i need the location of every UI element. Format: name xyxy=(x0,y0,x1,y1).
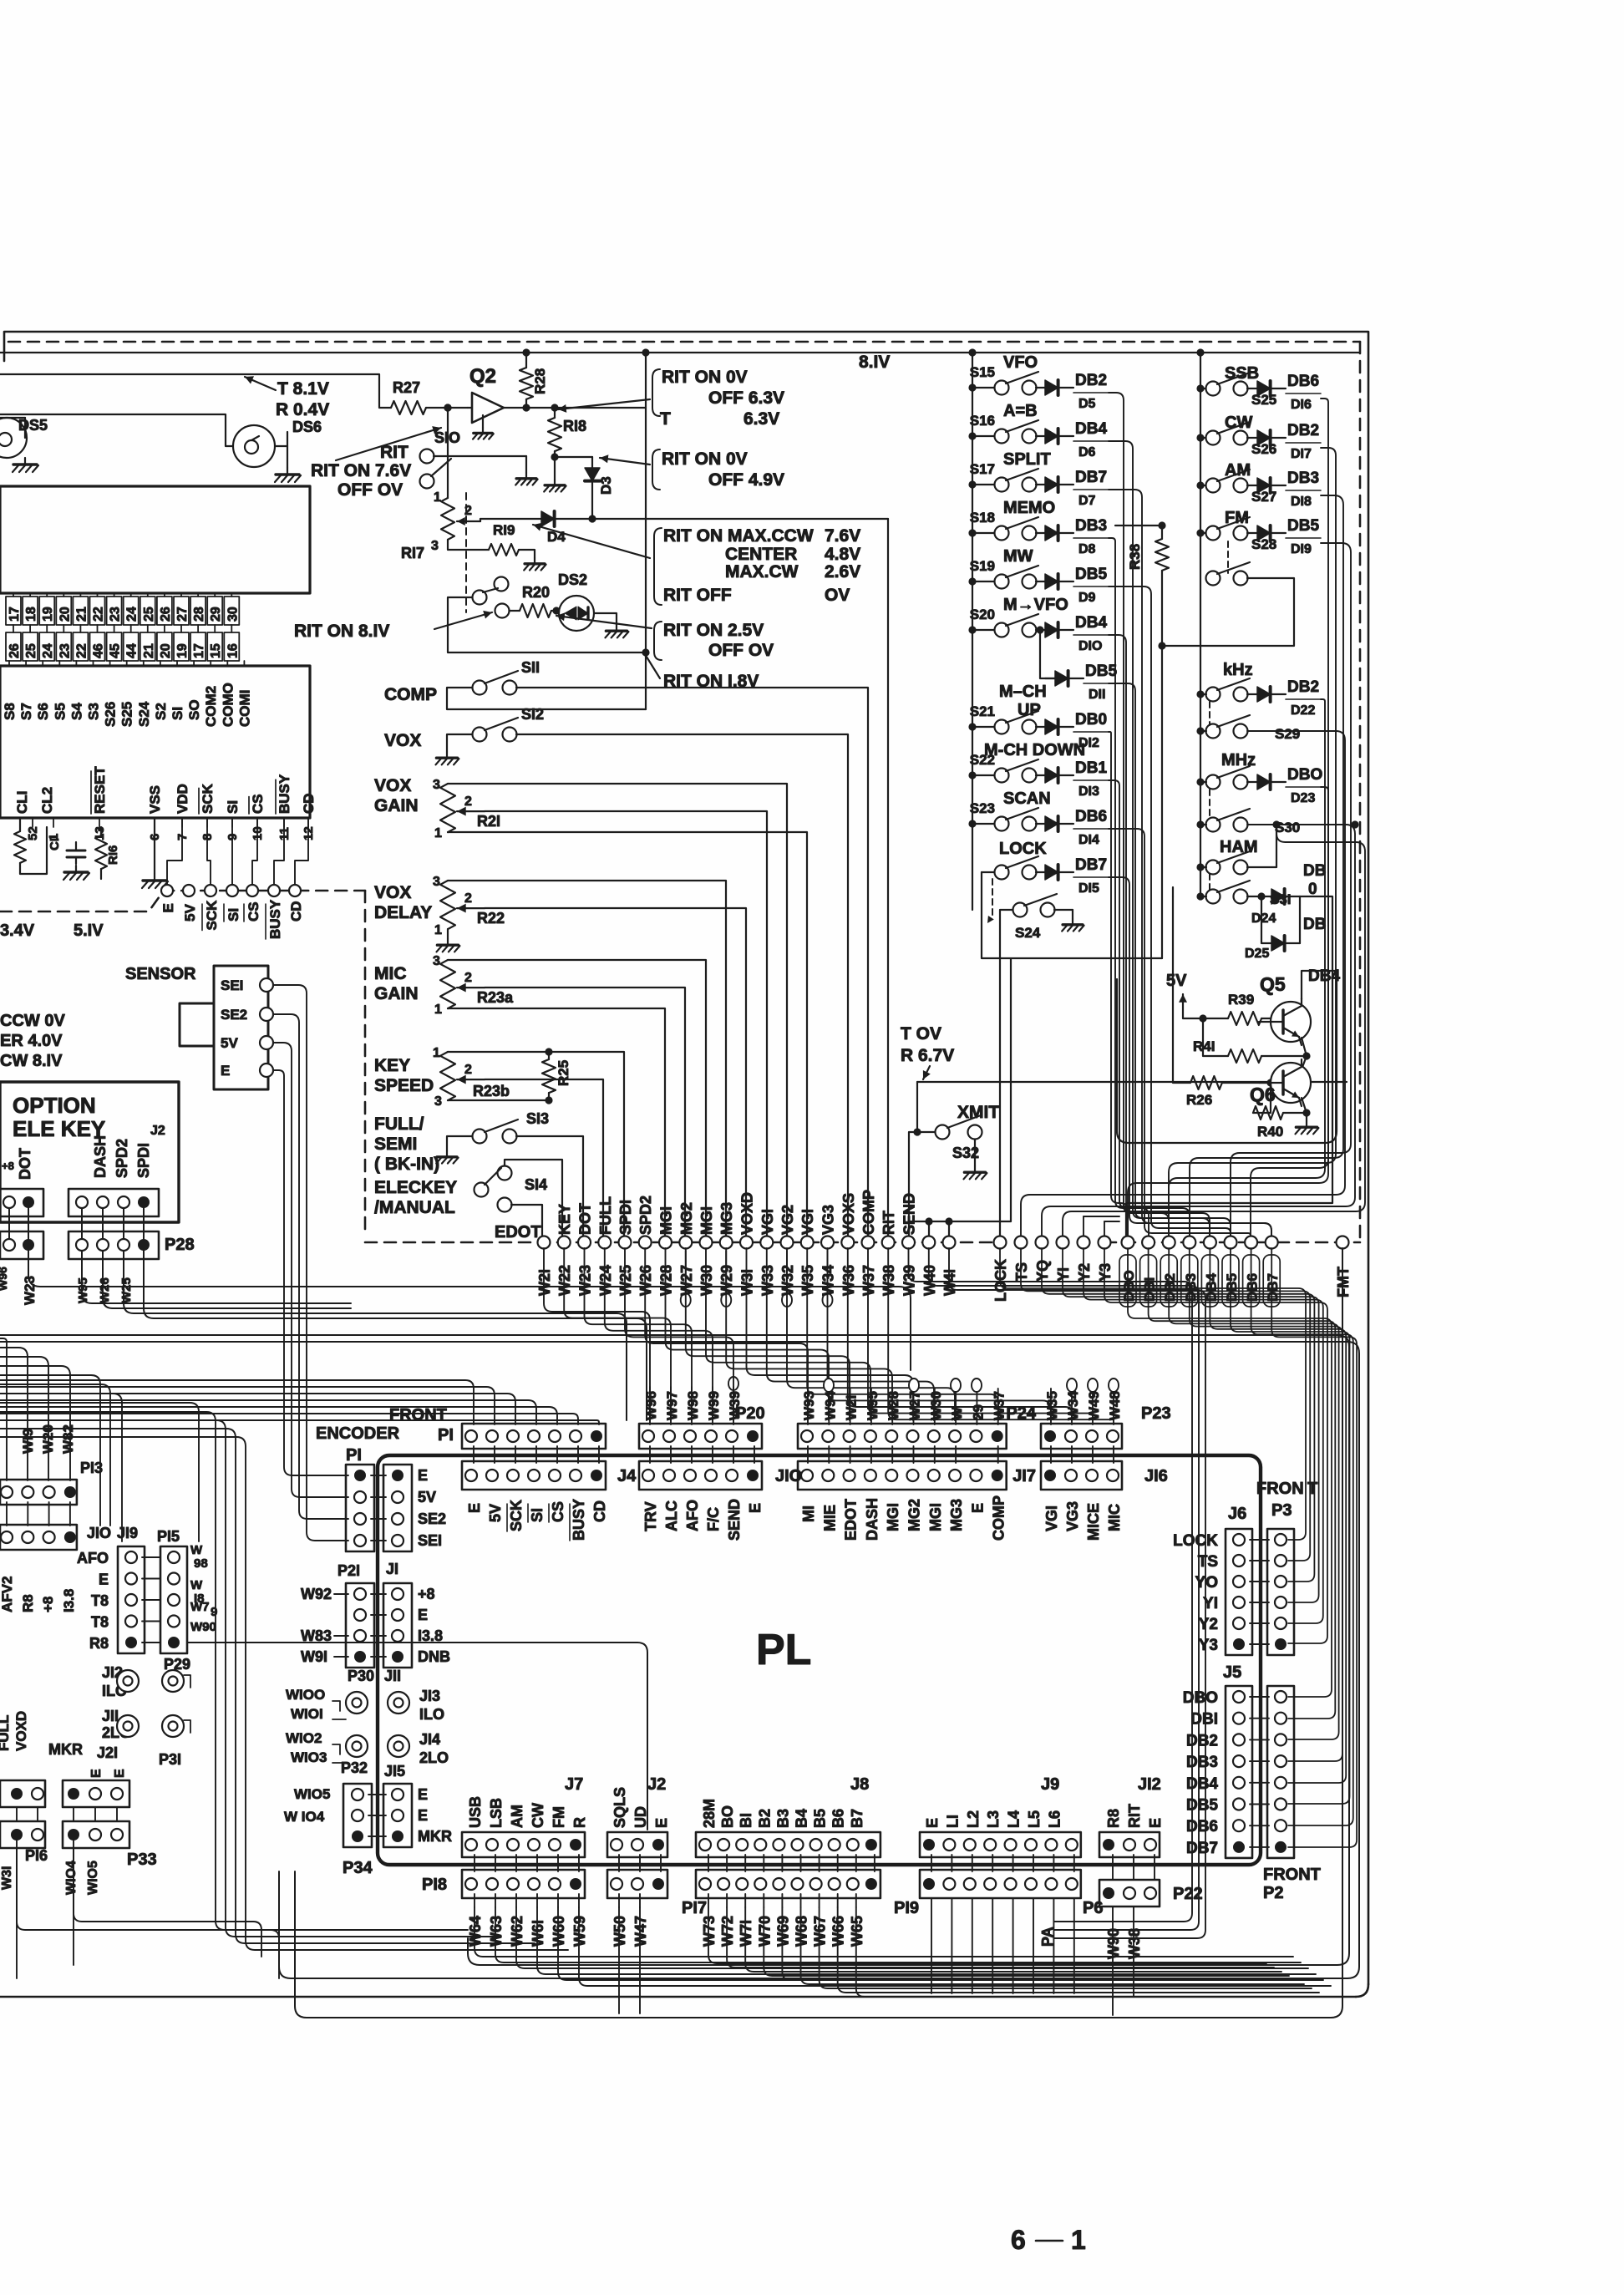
annotation RIT ON MAX.CCW block xyxy=(654,528,662,605)
wire Y1 Y2 Y3 feeds xyxy=(1063,825,1365,1238)
svg-text:W96: W96 xyxy=(643,1391,659,1420)
svg-text:E: E xyxy=(653,1818,670,1828)
svg-text:MGI: MGI xyxy=(698,1206,715,1235)
svg-text:W62: W62 xyxy=(509,1916,525,1947)
board outline solid border xyxy=(4,332,1368,1984)
svg-text:W7: W7 xyxy=(190,1600,210,1614)
svg-text:DB0: DB0 xyxy=(1075,711,1107,729)
svg-text:19: 19 xyxy=(41,607,55,622)
svg-text:S20: S20 xyxy=(970,607,995,622)
switch MHz xyxy=(1206,775,1221,790)
svg-text:J8: J8 xyxy=(850,1775,869,1794)
svg-text:DB3: DB3 xyxy=(1186,1754,1218,1771)
wire Q6 emitter ground xyxy=(1302,1098,1307,1113)
diode D5 xyxy=(1036,387,1045,388)
diode D15 xyxy=(1036,871,1045,873)
capacitor C1 xyxy=(67,850,85,852)
svg-text:SPEED: SPEED xyxy=(374,1076,434,1095)
svg-text:J6: J6 xyxy=(1228,1505,1246,1523)
svg-text:MKR: MKR xyxy=(418,1828,452,1845)
svg-text:SO: SO xyxy=(186,699,202,720)
svg-text:3: 3 xyxy=(433,778,440,792)
connector J9 xyxy=(920,1832,1081,1857)
wire S12 to VOXS bus xyxy=(516,734,848,1238)
svg-text:3.4V: 3.4V xyxy=(0,922,35,940)
wire to RIT pot xyxy=(447,408,449,498)
ground S13 xyxy=(447,1136,472,1151)
svg-text:EDOT: EDOT xyxy=(495,1223,541,1241)
svg-text:COMI: COMI xyxy=(236,690,252,727)
stubs P21-J11 xyxy=(371,1593,386,1595)
connector J10 left xyxy=(0,1525,77,1550)
svg-text:DI9: DI9 xyxy=(1291,542,1312,556)
svg-text:DBO: DBO xyxy=(1183,1689,1218,1707)
svg-text:TS: TS xyxy=(1013,1262,1030,1282)
svg-text:R20: R20 xyxy=(522,584,550,601)
svg-text:29: 29 xyxy=(970,1404,986,1420)
svg-text:98: 98 xyxy=(194,1556,208,1571)
svg-text:S25: S25 xyxy=(1251,392,1276,408)
connector J16 xyxy=(1041,1461,1122,1490)
svg-text:L3: L3 xyxy=(985,1810,1002,1828)
svg-text:P3I: P3I xyxy=(159,1751,181,1768)
svg-text:JI5: JI5 xyxy=(384,1763,405,1780)
svg-text:DASH: DASH xyxy=(92,1135,109,1178)
PL board outline xyxy=(378,1455,1261,1865)
svg-text:A=B: A=B xyxy=(1003,402,1038,420)
potentiometer R17 RIT xyxy=(441,498,454,540)
svg-text:RIT ON 7.6V: RIT ON 7.6V xyxy=(311,461,411,480)
svg-text:Y3: Y3 xyxy=(1199,1637,1218,1654)
diode D4 xyxy=(541,511,555,526)
svg-text:W30: W30 xyxy=(928,1391,944,1420)
connector P28 left xyxy=(0,1231,43,1259)
connector J2 option right xyxy=(69,1189,159,1216)
wire S28b loop xyxy=(1162,578,1294,646)
switch S19 MW xyxy=(995,575,1009,589)
resistor R19 xyxy=(489,544,519,556)
svg-text:MGI: MGI xyxy=(658,1206,675,1235)
svg-text:LOCK: LOCK xyxy=(1173,1532,1218,1550)
svg-text:S6: S6 xyxy=(35,703,51,720)
svg-text:S17: S17 xyxy=(970,461,995,477)
stubs P1-J4 xyxy=(473,1446,475,1463)
resistor R27 xyxy=(391,401,426,414)
wire MHz diode out down xyxy=(1128,787,1328,1238)
wire fan W pins to connectors xyxy=(544,1248,650,1420)
svg-text:9: 9 xyxy=(211,1605,217,1619)
svg-text:28: 28 xyxy=(192,607,206,622)
svg-text:AFV2: AFV2 xyxy=(0,1577,15,1612)
svg-text:D7: D7 xyxy=(1078,494,1096,508)
switch S30 xyxy=(1206,818,1221,832)
diode DI7 xyxy=(1247,437,1257,439)
svg-text:S24: S24 xyxy=(136,701,152,727)
wire 5V to R39 xyxy=(1183,1013,1203,1018)
wires bottom left drops xyxy=(74,1841,261,1957)
svg-text:RI6: RI6 xyxy=(106,845,120,865)
svg-text:R8: R8 xyxy=(89,1635,109,1652)
connector SENSOR xyxy=(214,966,268,1089)
ground for DS5 xyxy=(24,458,26,465)
svg-text:LOCK: LOCK xyxy=(992,1259,1009,1302)
svg-text:YI: YI xyxy=(1203,1595,1218,1612)
svg-text:44: 44 xyxy=(125,643,140,658)
svg-text:CD: CD xyxy=(301,793,317,814)
switch S27 AM xyxy=(1206,479,1221,493)
svg-text:W70: W70 xyxy=(756,1916,773,1947)
svg-text:E: E xyxy=(418,1467,428,1484)
svg-text:J2I: J2I xyxy=(97,1744,118,1761)
svg-text:22: 22 xyxy=(92,607,106,622)
mech dashed link LOCK-S24 xyxy=(992,879,993,917)
wires DB pins to P2 xyxy=(1128,1248,1332,1697)
wire diode bus xyxy=(1109,635,1210,1238)
svg-text:BUSY: BUSY xyxy=(571,1499,587,1541)
svg-text:COM2: COM2 xyxy=(203,686,219,727)
svg-text:P20: P20 xyxy=(735,1404,765,1423)
svg-text:ELECKEY: ELECKEY xyxy=(374,1178,457,1197)
svg-text:SSB: SSB xyxy=(1225,364,1259,383)
lamp DS5 xyxy=(0,418,27,458)
svg-text:SCK: SCK xyxy=(200,783,216,814)
svg-text:CW 8.IV: CW 8.IV xyxy=(0,1052,63,1070)
wire diode bus xyxy=(1109,780,1149,1238)
stubs J2-P17 xyxy=(618,1855,620,1871)
svg-text:45: 45 xyxy=(109,643,123,658)
svg-text:S25: S25 xyxy=(119,702,135,727)
svg-text:W59: W59 xyxy=(571,1916,588,1947)
svg-text:S8: S8 xyxy=(2,703,18,720)
svg-text:B2: B2 xyxy=(756,1809,773,1828)
svg-text:DB2: DB2 xyxy=(1075,372,1107,389)
svg-text:21: 21 xyxy=(74,607,89,622)
svg-text:YI: YI xyxy=(1055,1267,1072,1282)
svg-text:FULL/: FULL/ xyxy=(374,1114,424,1134)
svg-text:SEND: SEND xyxy=(726,1499,743,1541)
wire R18 to D3 xyxy=(555,456,592,458)
svg-text:3: 3 xyxy=(433,875,440,889)
svg-text:+8: +8 xyxy=(2,1160,14,1172)
svg-text:Y2: Y2 xyxy=(1199,1616,1218,1633)
connector J2 option left xyxy=(0,1189,43,1216)
svg-text:Q5: Q5 xyxy=(1260,973,1286,995)
svg-text:W98: W98 xyxy=(685,1391,701,1420)
svg-text:JI6: JI6 xyxy=(1144,1467,1168,1485)
svg-text:1: 1 xyxy=(434,923,442,937)
svg-text:DB5: DB5 xyxy=(1287,517,1319,535)
svg-text:COMP: COMP xyxy=(991,1495,1007,1541)
wire lock box xyxy=(982,871,994,873)
svg-text:W92: W92 xyxy=(301,1586,332,1602)
splice ovals above P24 xyxy=(824,1379,834,1392)
svg-text:E: E xyxy=(418,1607,428,1623)
svg-text:D8: D8 xyxy=(1078,542,1096,556)
wire diode bus xyxy=(1109,586,1231,1238)
wire W41 up to lock box xyxy=(948,1221,950,1238)
resistor R18 xyxy=(554,408,556,418)
svg-text:DS6: DS6 xyxy=(292,419,322,435)
svg-text:DB5: DB5 xyxy=(1075,566,1107,583)
wires VDD..CD to bus pins xyxy=(167,818,182,885)
svg-text:( BK-IN): ( BK-IN) xyxy=(374,1155,439,1174)
svg-text:COMP: COMP xyxy=(860,1190,877,1235)
svg-text:Q2: Q2 xyxy=(469,365,496,388)
diode D22 xyxy=(1247,693,1257,695)
svg-text:LOCK: LOCK xyxy=(999,840,1047,858)
mech dashed link S28 xyxy=(1227,541,1229,573)
lamp DS2 LED xyxy=(559,596,594,631)
svg-text:CCW 0V: CCW 0V xyxy=(0,1012,65,1030)
svg-text:S26: S26 xyxy=(103,702,119,727)
wire R22 top xyxy=(448,881,726,1238)
svg-text:MIC: MIC xyxy=(1106,1504,1123,1531)
svg-text:VOXS: VOXS xyxy=(840,1193,857,1235)
connector P1 front xyxy=(462,1424,606,1449)
stubs J8-P19 xyxy=(708,1855,709,1871)
svg-text:DBI: DBI xyxy=(1190,1711,1218,1729)
svg-text:PI7: PI7 xyxy=(682,1899,707,1917)
svg-text:R22: R22 xyxy=(477,910,505,927)
jack J14 xyxy=(388,1735,409,1757)
svg-text:S29: S29 xyxy=(1275,726,1300,742)
svg-text:W90: W90 xyxy=(190,1620,216,1634)
svg-text:W: W xyxy=(190,1543,203,1557)
svg-text:24: 24 xyxy=(125,607,140,622)
svg-text:W32: W32 xyxy=(779,1265,796,1296)
svg-text:SI: SI xyxy=(226,908,241,922)
svg-text:W3I: W3I xyxy=(739,1269,756,1296)
switch HAM xyxy=(1206,861,1221,875)
svg-text:VOXD: VOXD xyxy=(13,1711,29,1751)
svg-text:T OV: T OV xyxy=(901,1024,941,1043)
svg-text:2LO: 2LO xyxy=(419,1749,449,1766)
svg-text:W4I: W4I xyxy=(941,1269,958,1296)
svg-text:DB5: DB5 xyxy=(1085,663,1117,680)
svg-text:CENTER: CENTER xyxy=(725,545,797,564)
svg-text:PI6: PI6 xyxy=(25,1847,48,1864)
svg-text:S2: S2 xyxy=(153,703,169,720)
wire S30 to Y0 pin xyxy=(1042,825,1355,1238)
svg-text:5V: 5V xyxy=(487,1504,504,1522)
svg-text:W39: W39 xyxy=(901,1265,918,1296)
resistor R41 xyxy=(1228,1049,1261,1063)
svg-text:T 8.1V: T 8.1V xyxy=(277,379,329,399)
svg-text:SI: SI xyxy=(225,800,241,814)
svg-text:DI8: DI8 xyxy=(1291,495,1312,509)
wire W39 W40 W41 drops xyxy=(909,1248,1193,1922)
svg-text:CS: CS xyxy=(250,794,266,814)
svg-text:28M: 28M xyxy=(701,1799,718,1828)
svg-text:CW: CW xyxy=(530,1803,546,1828)
ground for DS6 xyxy=(287,468,288,475)
diode DI8 xyxy=(1247,485,1257,486)
svg-text:E: E xyxy=(160,903,176,912)
wires P18 fan xyxy=(475,1907,1293,1957)
op-amp buffer Q2 xyxy=(472,393,504,423)
diode DI9 xyxy=(1247,532,1257,534)
diode DI4 xyxy=(1036,823,1045,825)
svg-text:GAIN: GAIN xyxy=(374,984,419,1003)
svg-text:W69: W69 xyxy=(774,1916,791,1947)
svg-text:B6: B6 xyxy=(830,1809,847,1828)
svg-text:WIO5: WIO5 xyxy=(86,1861,100,1895)
svg-text:W90: W90 xyxy=(1105,1928,1122,1959)
connector J4 xyxy=(462,1461,606,1490)
wire 8.1V to RIT switch xyxy=(448,597,643,652)
stubs P34-J15 xyxy=(368,1794,386,1795)
svg-text:R 6.7V: R 6.7V xyxy=(901,1046,954,1065)
svg-text:T8: T8 xyxy=(91,1592,109,1609)
svg-text:CW: CW xyxy=(1225,414,1252,432)
svg-text:SPDI: SPDI xyxy=(135,1143,152,1178)
svg-text:W37: W37 xyxy=(860,1265,877,1296)
wire R17 wiper line xyxy=(480,518,541,520)
svg-text:5V: 5V xyxy=(221,1035,238,1051)
wire S10 top to ground xyxy=(434,455,526,457)
wires left long verticals xyxy=(0,1412,468,1930)
svg-text:W3I: W3I xyxy=(0,1866,14,1890)
connector P23 xyxy=(1041,1424,1122,1449)
svg-text:16: 16 xyxy=(226,643,240,658)
svg-text:ILO: ILO xyxy=(419,1706,444,1723)
svg-text:P33: P33 xyxy=(127,1851,157,1869)
svg-text:5V: 5V xyxy=(418,1489,436,1505)
svg-text:E: E xyxy=(113,1769,127,1778)
svg-text:R8: R8 xyxy=(20,1594,36,1612)
svg-text:S18: S18 xyxy=(970,510,995,526)
svg-text:S3: S3 xyxy=(86,703,102,720)
svg-text:OFF OV: OFF OV xyxy=(708,641,774,660)
connector J15 xyxy=(383,1784,412,1847)
svg-text:VGI: VGI xyxy=(799,1209,816,1235)
svg-text:6.3V: 6.3V xyxy=(743,409,779,429)
svg-text:5V: 5V xyxy=(182,904,198,922)
svg-text:DB3: DB3 xyxy=(1075,517,1107,535)
svg-text:DBO: DBO xyxy=(1287,766,1322,784)
svg-text:MG2: MG2 xyxy=(678,1202,695,1235)
svg-text:FULL: FULL xyxy=(0,1715,12,1751)
svg-text:VGI: VGI xyxy=(1043,1505,1060,1531)
connector P20 xyxy=(639,1424,762,1449)
wire R23b pins xyxy=(448,1052,624,1238)
switch S18 MEMO xyxy=(995,526,1009,541)
svg-text:DB7: DB7 xyxy=(1186,1840,1218,1857)
svg-text:VSS: VSS xyxy=(147,785,163,814)
8.1V rail wire xyxy=(0,352,1360,353)
svg-text:W28: W28 xyxy=(886,1391,901,1420)
svg-text:+8: +8 xyxy=(418,1586,435,1602)
jack P31 xyxy=(162,1715,184,1737)
svg-text:B3: B3 xyxy=(774,1809,791,1828)
svg-text:W26: W26 xyxy=(98,1277,112,1303)
svg-text:BI: BI xyxy=(738,1813,754,1828)
svg-text:W22: W22 xyxy=(556,1265,573,1296)
svg-text:S19: S19 xyxy=(970,558,995,574)
switch S24 xyxy=(1013,903,1028,917)
svg-text:P2: P2 xyxy=(1263,1884,1283,1902)
svg-text:30: 30 xyxy=(226,607,240,622)
svg-text:W27: W27 xyxy=(678,1265,695,1296)
svg-text:COMO: COMO xyxy=(220,683,236,727)
svg-text:FULL: FULL xyxy=(597,1196,614,1235)
svg-text:ER 4.0V: ER 4.0V xyxy=(0,1032,63,1050)
svg-text:J2: J2 xyxy=(150,1124,165,1138)
wire W102 W103 hooks xyxy=(332,1744,340,1754)
switch S15 VFO xyxy=(995,381,1009,395)
ground R18 xyxy=(554,480,556,485)
svg-text:W35: W35 xyxy=(1044,1391,1060,1420)
diode D7 xyxy=(1036,484,1045,485)
svg-text:XMIT: XMIT xyxy=(957,1103,999,1122)
svg-text:J9: J9 xyxy=(1041,1775,1059,1794)
svg-text:1: 1 xyxy=(1071,2225,1086,2255)
wire R22 wiper to VOXD bus xyxy=(485,908,746,1238)
svg-text:W99: W99 xyxy=(706,1391,722,1420)
wire R38 top taps xyxy=(1115,525,1162,526)
svg-text:P30: P30 xyxy=(348,1668,374,1684)
svg-text:BUSY: BUSY xyxy=(267,899,283,939)
svg-text:D5: D5 xyxy=(1078,397,1096,411)
stubs P20-J10 xyxy=(649,1446,651,1463)
svg-text:W30: W30 xyxy=(698,1265,715,1296)
svg-text:DB5: DB5 xyxy=(1186,1797,1218,1815)
svg-text:2: 2 xyxy=(464,891,472,906)
svg-text:PI8: PI8 xyxy=(422,1876,447,1894)
svg-text:E: E xyxy=(418,1807,428,1824)
svg-text:W: W xyxy=(190,1578,203,1592)
svg-text:EDOT: EDOT xyxy=(843,1499,860,1541)
stubs J19-P15 xyxy=(142,1556,160,1558)
svg-text:25: 25 xyxy=(24,643,38,658)
connector MKR box left xyxy=(0,1780,45,1807)
connector J1 xyxy=(383,1465,412,1551)
svg-text:23: 23 xyxy=(109,607,123,622)
svg-text:DII: DII xyxy=(1089,688,1105,702)
svg-text:RIT ON MAX.CCW: RIT ON MAX.CCW xyxy=(663,526,814,546)
svg-text:2: 2 xyxy=(464,1063,472,1077)
switch S28 second pole xyxy=(1206,571,1221,586)
stubs P1-J1 encoder xyxy=(371,1475,386,1476)
wires P22 drops xyxy=(1112,1907,1114,2015)
svg-text:PL: PL xyxy=(756,1626,811,1674)
svg-text:DI5: DI5 xyxy=(1078,881,1099,896)
mech dashed link S30 xyxy=(1209,790,1210,819)
svg-text:W97: W97 xyxy=(664,1391,680,1420)
svg-text:MEMO: MEMO xyxy=(1003,499,1055,517)
svg-text:DI7: DI7 xyxy=(1291,447,1312,461)
svg-text:DB2: DB2 xyxy=(1287,678,1319,696)
svg-text:SPDI: SPDI xyxy=(617,1200,634,1235)
annotation RIT ON 0V OFF 4.9V xyxy=(652,449,660,490)
svg-text:RIT OFF: RIT OFF xyxy=(663,586,732,605)
svg-text:RIT: RIT xyxy=(1126,1804,1143,1828)
svg-text:VOXD: VOXD xyxy=(739,1192,756,1235)
wire T-R voltage line xyxy=(0,374,391,408)
wire S29 to TS pin xyxy=(1021,731,1345,1238)
svg-text:JI7: JI7 xyxy=(1012,1467,1036,1485)
svg-text:22: 22 xyxy=(74,643,89,658)
svg-text:W24: W24 xyxy=(597,1265,614,1296)
svg-text:3: 3 xyxy=(434,1094,442,1109)
pin row LOCK..Y3 xyxy=(994,1236,1007,1249)
svg-text:MAX.CW: MAX.CW xyxy=(725,562,799,581)
svg-text:CI: CI xyxy=(48,838,62,850)
svg-text:20: 20 xyxy=(159,643,173,658)
svg-text:FRON: FRON xyxy=(1256,1480,1304,1498)
svg-text:DB: DB xyxy=(1303,862,1326,880)
switch S10 xyxy=(420,449,434,464)
